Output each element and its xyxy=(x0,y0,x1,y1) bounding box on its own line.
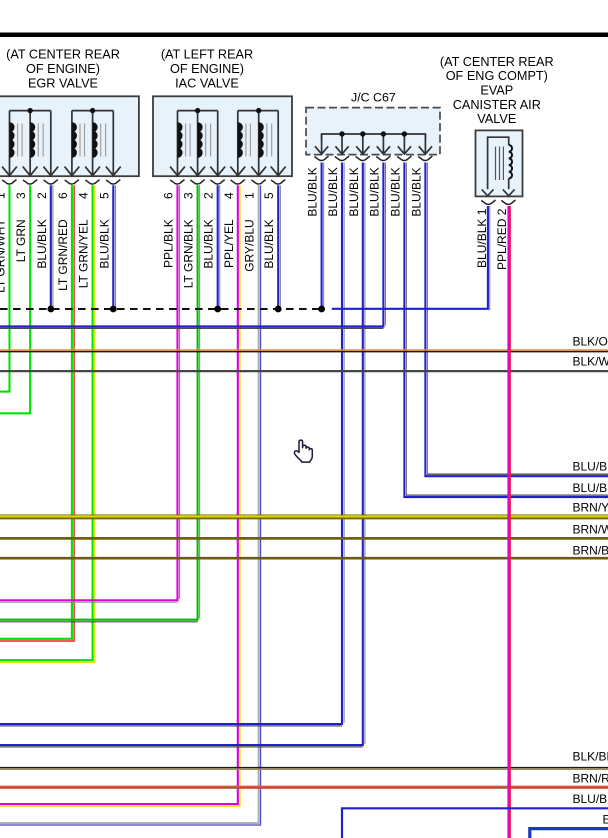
svg-text:6: 6 xyxy=(162,192,176,199)
svg-text:CANISTER AIR: CANISTER AIR xyxy=(453,98,541,112)
IAC solenoid coil unit 1 xyxy=(170,108,225,176)
horizontal wire BRN/RED xyxy=(0,772,608,788)
IAC connector chevrons, pin numbers and wire colour labels xyxy=(162,180,286,289)
wire J/C C67 lead 4 BLU/BLK exits left xyxy=(0,163,386,329)
horizontal wire BLK/BRN xyxy=(0,749,608,769)
svg-text:BLU/BLK: BLU/BLK xyxy=(35,219,49,268)
wire J/C C67 lead 1 BLU/BLK to splice xyxy=(322,163,324,307)
mouse hand cursor xyxy=(294,440,312,462)
wire J/C C67 lead 3 BLU/BLK exits left xyxy=(0,163,365,747)
svg-text:3: 3 xyxy=(182,192,196,199)
EGR valve box xyxy=(0,96,139,176)
svg-text:PPL/RED 2: PPL/RED 2 xyxy=(495,208,509,270)
svg-text:BLU/BLK: BLU/BLK xyxy=(573,792,608,806)
EGR solenoid coil unit 2 xyxy=(65,108,121,176)
svg-text:BLU/BLK: BLU/BLK xyxy=(306,167,320,216)
EVAP canister air valve box xyxy=(476,130,523,196)
svg-text:BLU/BLK: BLU/BLK xyxy=(326,167,340,216)
svg-text:3: 3 xyxy=(14,192,28,199)
J/C C67 label xyxy=(351,91,396,105)
svg-text:PPL/YEL: PPL/YEL xyxy=(222,219,236,268)
svg-text:PPL/BLK: PPL/BLK xyxy=(162,219,176,268)
svg-text:OF ENGINE): OF ENGINE) xyxy=(26,62,100,76)
wire J/C C67 lead 6 BLU/BLK exits right xyxy=(425,163,608,477)
EGR valve title xyxy=(6,47,120,90)
svg-text:EVAP: EVAP xyxy=(480,84,513,98)
svg-text:BLU/BLK: BLU/BLK xyxy=(409,167,423,216)
svg-text:2: 2 xyxy=(202,192,216,199)
svg-text:LT GRN: LT GRN xyxy=(14,219,28,262)
IAC valve title xyxy=(161,47,253,90)
splice junction dot IAC pin2 xyxy=(214,306,221,313)
wire IAC pin5 BLU/BLK to splice xyxy=(278,185,280,306)
svg-text:BLU/BLK: BLU/BLK xyxy=(573,460,608,474)
svg-text:BRN/BLK: BRN/BLK xyxy=(573,543,608,557)
EVAP canister air valve title xyxy=(440,55,554,126)
svg-text:LT GRN/YEL: LT GRN/YEL xyxy=(77,219,91,288)
svg-text:BLU/BLK: BLU/BLK xyxy=(262,219,276,268)
wire IAC pin6 PPL/BLK xyxy=(0,185,180,602)
wire IAC pin1 GRY/BLU xyxy=(0,185,261,825)
svg-text:IAC VALVE: IAC VALVE xyxy=(175,77,239,91)
svg-text:2: 2 xyxy=(35,192,49,199)
svg-text:(AT CENTER REAR: (AT CENTER REAR xyxy=(440,55,554,69)
svg-text:BLU/BLK: BLU/BLK xyxy=(367,167,381,216)
wire J/C C67 lead 2 BLU/BLK exits left xyxy=(0,163,344,726)
svg-text:BLU/BLK: BLU/BLK xyxy=(202,219,216,268)
svg-text:BLK/WHT: BLK/WHT xyxy=(573,355,608,369)
splice junction dot J/C lead1 xyxy=(318,306,325,313)
svg-text:BRN/RED: BRN/RED xyxy=(573,772,608,786)
svg-text:BLU/BLK: BLU/BLK xyxy=(347,167,361,216)
EVAP connector chevrons and labels xyxy=(475,200,516,270)
svg-text:BLK/ORG: BLK/ORG xyxy=(573,334,608,348)
EGR connector chevrons, pin numbers and wire colour labels xyxy=(0,180,120,293)
wire EVAP pin1 BLU/BLK link to splice bus xyxy=(332,206,490,310)
svg-text:4: 4 xyxy=(222,192,236,199)
svg-text:ECM: ECM xyxy=(603,812,608,826)
svg-text:LT GRN/RED: LT GRN/RED xyxy=(56,219,70,291)
wire EGR pin3 LT GRN xyxy=(0,185,30,413)
J/C C67 chevrons and BLU/BLK labels xyxy=(306,156,433,217)
label BLU/BLK right 2 xyxy=(573,481,608,495)
blue component box bottom right xyxy=(530,829,608,838)
wire EGR pin6 LT GRN/RED xyxy=(0,185,74,641)
label BLU/BLK right 1 xyxy=(573,460,608,474)
svg-text:(AT LEFT REAR: (AT LEFT REAR xyxy=(161,47,253,61)
horizontal wire BLK/ORG xyxy=(0,334,608,351)
splice junction dot IAC pin5 xyxy=(275,306,282,313)
splice junction dot EGR pin2 xyxy=(47,306,54,313)
svg-text:5: 5 xyxy=(97,192,111,199)
svg-text:BLU/BLK: BLU/BLK xyxy=(388,167,402,216)
svg-text:BLK/BRN: BLK/BRN xyxy=(573,749,608,763)
svg-text:LT GRN/WHT: LT GRN/WHT xyxy=(0,219,8,293)
svg-text:BRN/YEL: BRN/YEL xyxy=(573,500,608,514)
horizontal wire BLU/BLK bottom exits right and bottom xyxy=(342,792,608,838)
partial label at right edge xyxy=(603,812,608,826)
svg-text:BLU/BLK: BLU/BLK xyxy=(573,481,608,495)
top border line xyxy=(0,33,608,38)
wire IAC pin3 LT GRN/BLK xyxy=(0,185,200,622)
wire EGR pin2 BLU/BLK to splice xyxy=(51,185,53,306)
wire EGR pin1 LT GRN/WHT xyxy=(0,185,10,391)
junction connector J/C C67 box xyxy=(306,108,440,155)
dashed splice bus line xyxy=(0,308,319,310)
horizontal wire BRN/WHT xyxy=(0,522,608,538)
svg-text:4: 4 xyxy=(77,192,91,199)
svg-text:BLU/BLK: BLU/BLK xyxy=(97,219,111,268)
svg-text:BRN/WHT: BRN/WHT xyxy=(573,522,608,536)
wire J/C C67 lead 5 BLU/BLK exits right xyxy=(404,163,608,498)
wire EVAP pin2 PPL/RED xyxy=(509,206,511,838)
svg-text:6: 6 xyxy=(56,192,70,199)
IAC valve box xyxy=(153,96,292,176)
svg-text:LT GRN/BLK: LT GRN/BLK xyxy=(182,219,196,288)
svg-text:1: 1 xyxy=(0,192,8,199)
svg-text:1: 1 xyxy=(243,192,257,199)
svg-text:GRY/BLU: GRY/BLU xyxy=(243,219,257,271)
svg-text:5: 5 xyxy=(262,192,276,199)
svg-text:EGR VALVE: EGR VALVE xyxy=(28,77,98,91)
wire EGR pin4 LT GRN/YEL xyxy=(0,185,95,662)
horizontal wire BLK/WHT xyxy=(0,355,608,371)
IAC solenoid coil unit 2 xyxy=(230,108,285,176)
J/C C67 internal bus bar with junction dots xyxy=(315,131,432,154)
svg-text:(AT CENTER REAR: (AT CENTER REAR xyxy=(6,47,120,61)
EGR solenoid coil unit 1 xyxy=(2,108,58,176)
wire IAC pin2 BLU/BLK to splice xyxy=(218,185,220,306)
svg-text:VALVE: VALVE xyxy=(477,112,516,126)
svg-text:J/C C67: J/C C67 xyxy=(351,91,396,105)
horizontal wire BRN/YEL xyxy=(0,500,608,518)
svg-text:OF ENG COMPT): OF ENG COMPT) xyxy=(446,69,548,83)
horizontal wire BRN/BLK xyxy=(0,543,608,558)
EVAP solenoid coil symbol xyxy=(482,137,515,196)
wire IAC pin4 PPL/YEL xyxy=(0,185,240,806)
wire EGR pin5 BLU/BLK to splice xyxy=(113,185,115,306)
svg-text:OF ENGINE): OF ENGINE) xyxy=(170,62,244,76)
splice junction dot EGR pin5 xyxy=(110,306,117,313)
